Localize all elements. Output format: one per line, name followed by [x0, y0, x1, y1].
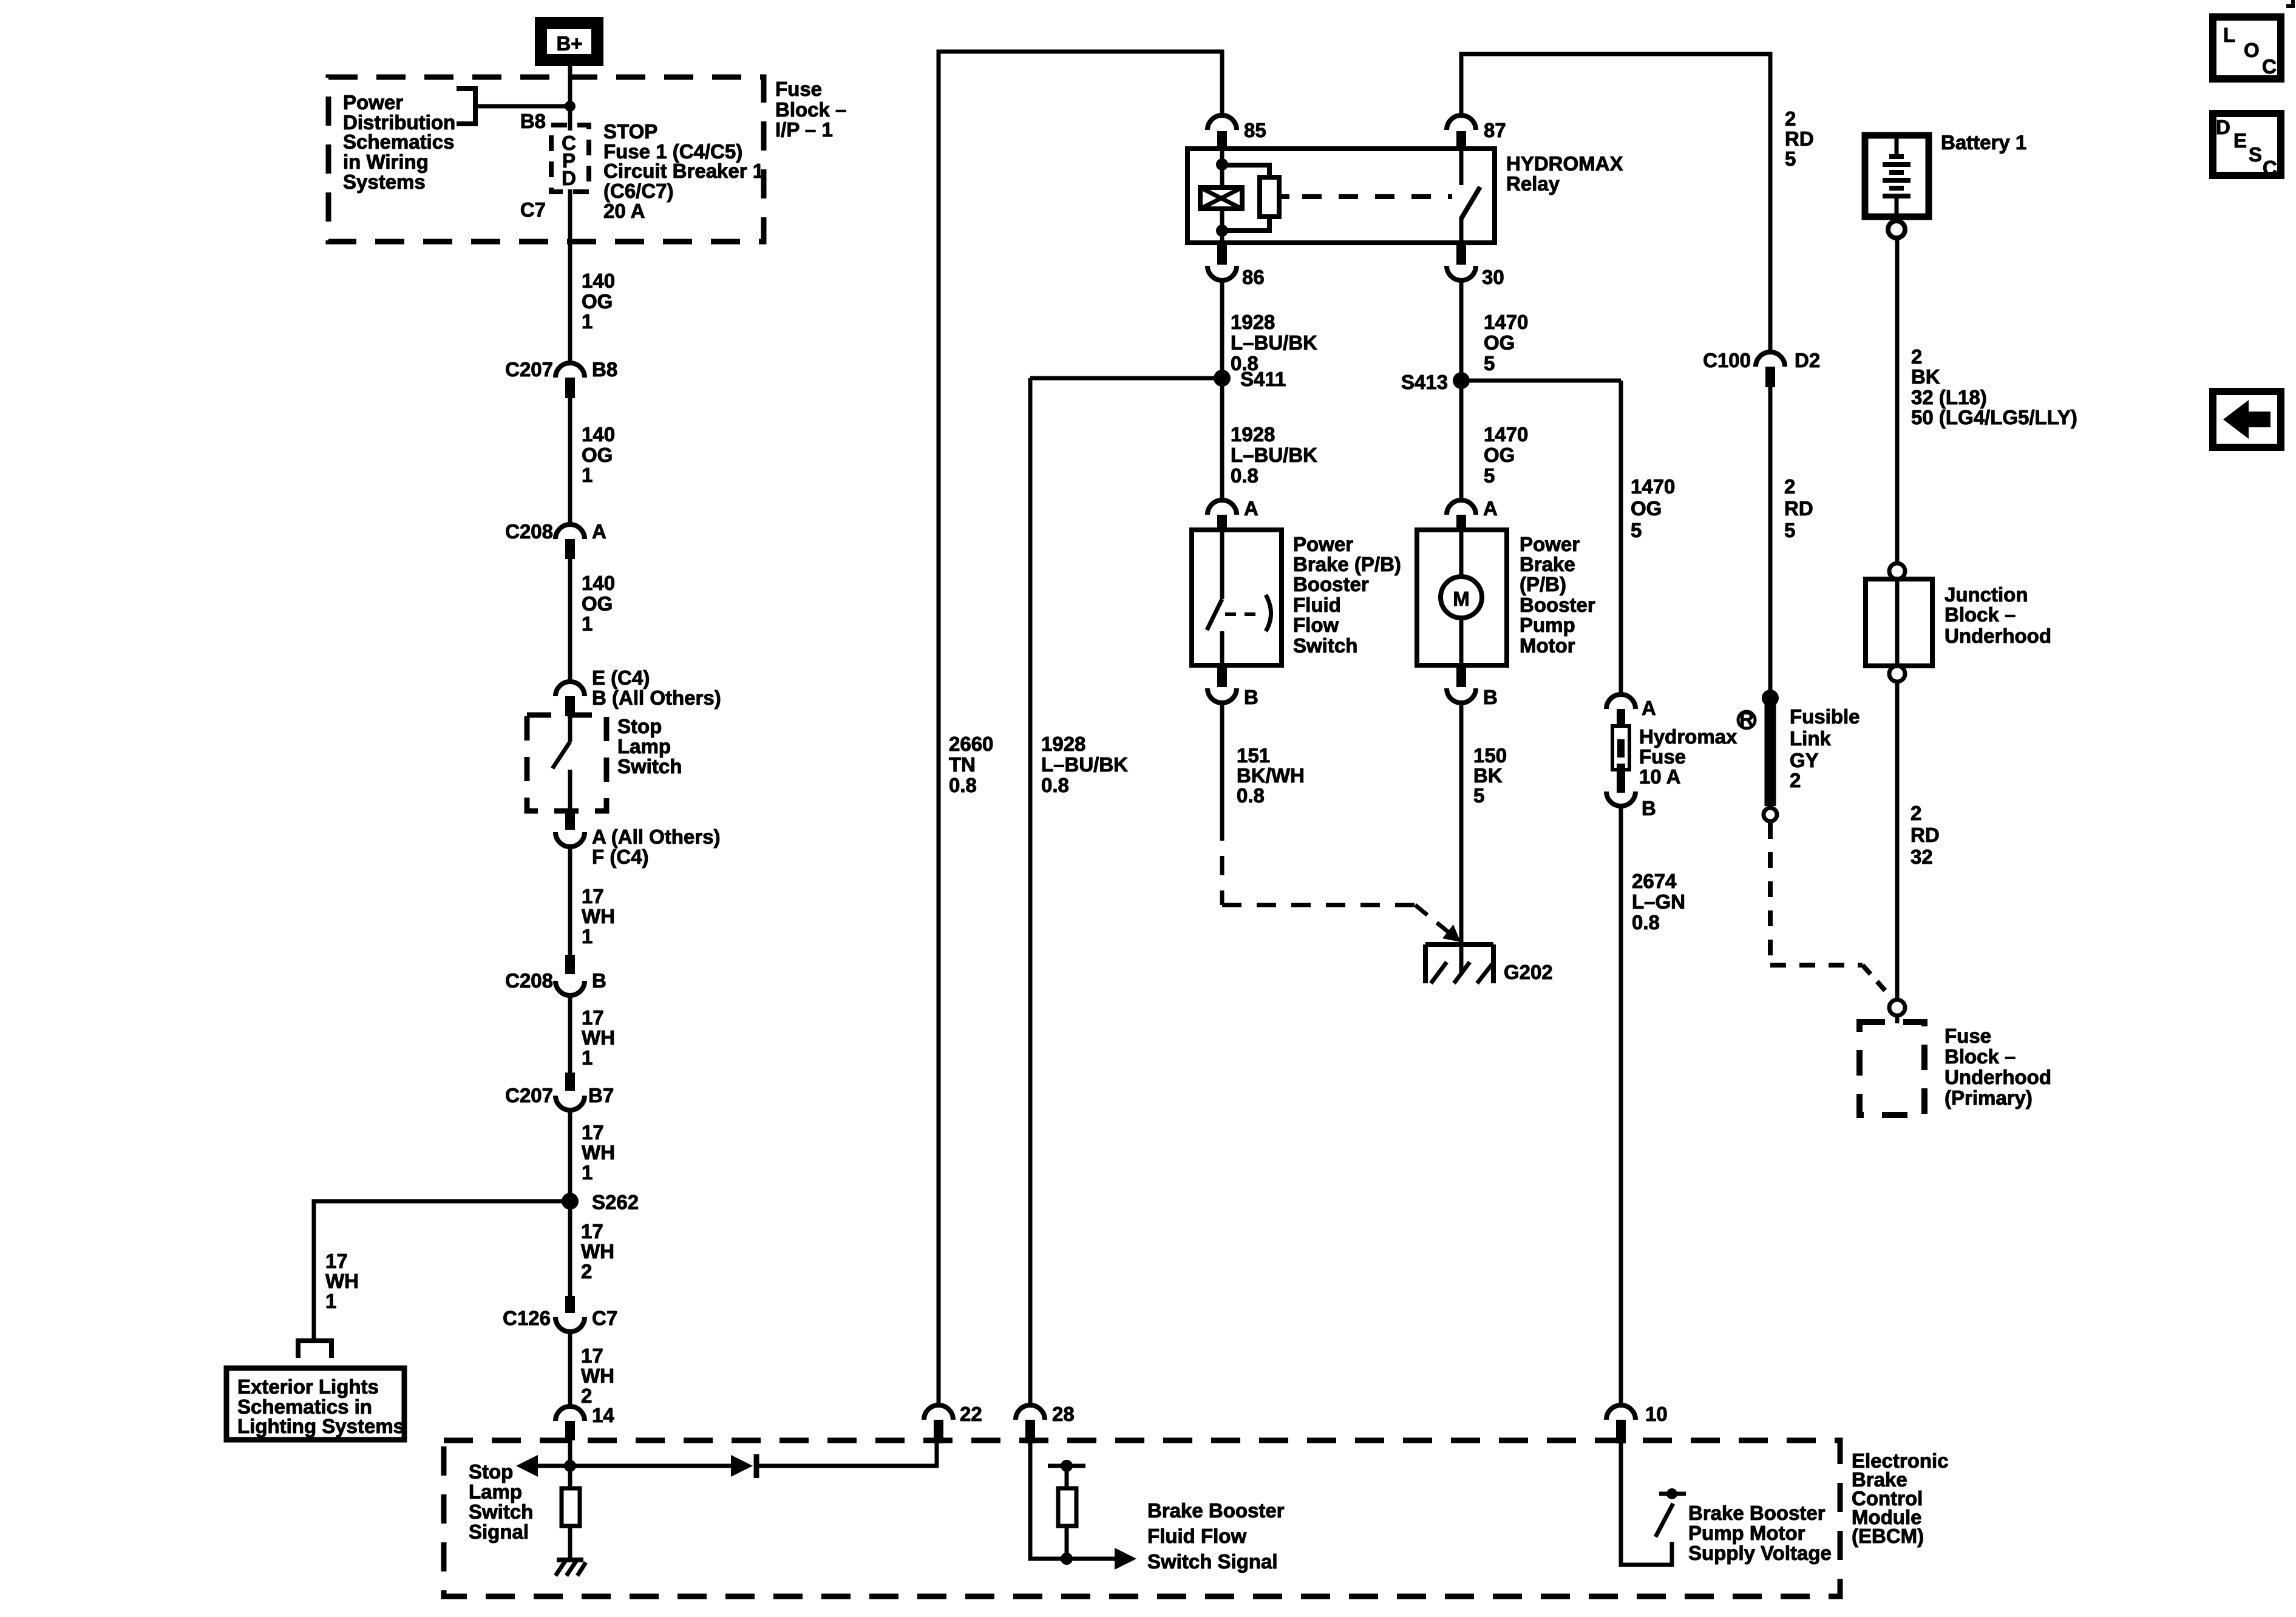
relay pin 85 [1207, 115, 1266, 150]
Power Brake Booster Pump Motor label [1520, 533, 1595, 657]
wire 2 RD 32 [1895, 682, 1900, 1000]
svg-text:Switch Signal: Switch Signal [1147, 1550, 1278, 1573]
relay U1 HYDROMAX box [1187, 149, 1495, 243]
svg-text:F (C4): F (C4) [592, 846, 649, 868]
back arrow box [2213, 392, 2281, 447]
svg-text:Systems: Systems [343, 171, 426, 193]
internal switch blade [1656, 1488, 1686, 1537]
svg-text:10 A: 10 A [1639, 765, 1680, 788]
wire 150 BK to ground [1459, 703, 1464, 944]
wire bar to pin 22 [756, 1442, 937, 1466]
fluid flow switch signal circuit inside EBCM [1030, 1443, 1116, 1559]
svg-text:B: B [1244, 686, 1258, 708]
svg-text:A: A [1642, 697, 1656, 719]
svg-text:140: 140 [582, 269, 615, 292]
svg-text:OG: OG [582, 444, 613, 466]
svg-text:Relay: Relay [1506, 172, 1560, 195]
relay armature dashed link [1279, 194, 1289, 199]
svg-text:C208: C208 [505, 520, 553, 543]
svg-text:L–BU/BK: L–BU/BK [1231, 444, 1317, 466]
svg-text:1470: 1470 [1484, 311, 1528, 333]
STOP fuse / circuit breaker label [603, 120, 764, 222]
wire pin14 to stop lamp signal node [568, 1440, 572, 1472]
label 1470 OG 5 [1484, 423, 1528, 487]
svg-text:1: 1 [582, 1046, 593, 1069]
svg-text:B8: B8 [592, 358, 617, 381]
svg-text:2: 2 [1911, 345, 1922, 368]
svg-text:Power: Power [1520, 533, 1580, 555]
svg-text:1: 1 [325, 1290, 336, 1312]
wire S413 right to fuse drop [1461, 379, 1621, 383]
HYDROMAX Relay label [1506, 152, 1623, 195]
junction dot [1061, 1553, 1073, 1565]
fusible link GY [1762, 690, 1779, 821]
svg-text:32 (L18): 32 (L18) [1911, 386, 1987, 408]
svg-text:Circuit Breaker 1: Circuit Breaker 1 [603, 160, 764, 182]
label 17 WH 1 branch [325, 1250, 359, 1312]
svg-text:S411: S411 [1240, 368, 1286, 390]
svg-text:Fuse: Fuse [1639, 745, 1686, 768]
svg-text:Brake Booster: Brake Booster [1147, 1499, 1285, 1522]
svg-text:E: E [2233, 129, 2247, 152]
svg-text:WH: WH [581, 1240, 614, 1263]
svg-text:O: O [2244, 39, 2260, 61]
svg-text:87: 87 [1484, 119, 1506, 141]
wire 17 WH 1 [568, 847, 572, 955]
svg-text:A (All Others): A (All Others) [592, 825, 720, 848]
label 2 RD 5 [1784, 475, 1813, 541]
svg-text:Lighting Systems: Lighting Systems [237, 1415, 404, 1437]
svg-text:30: 30 [1482, 266, 1504, 288]
svg-text:Supply Voltage: Supply Voltage [1688, 1542, 1832, 1564]
Fuse Block - Underhood (Primary) label [1944, 1025, 2051, 1109]
svg-text:RD: RD [1784, 497, 1813, 520]
svg-text:17: 17 [581, 1344, 603, 1367]
svg-text:B8: B8 [520, 110, 546, 132]
left arrow to Stop Lamp Switch Signal [516, 1455, 732, 1477]
fuse block I/P dashed box [328, 77, 764, 242]
svg-text:2: 2 [1785, 107, 1796, 130]
svg-text:Brake (P/B): Brake (P/B) [1293, 553, 1401, 575]
svg-text:Pump Motor: Pump Motor [1688, 1522, 1805, 1544]
svg-text:B7: B7 [588, 1084, 614, 1107]
svg-text:32: 32 [1911, 846, 1933, 868]
battery plates [1883, 138, 1911, 217]
svg-text:WH: WH [325, 1270, 359, 1292]
splice S411 [1214, 368, 1286, 390]
node: Power Distribution Schematics label [343, 91, 455, 193]
svg-text:Switch: Switch [617, 755, 682, 778]
svg-text:OG: OG [1484, 331, 1515, 354]
EBCM pin 10 [1606, 1403, 1668, 1443]
svg-text:2674: 2674 [1632, 870, 1677, 892]
relay coil [1200, 149, 1242, 243]
wire 86 to S411 to switch A [1220, 280, 1224, 500]
label 140 OG 1 [582, 572, 615, 635]
svg-text:BK: BK [1911, 365, 1940, 388]
svg-text:0.8: 0.8 [1231, 464, 1258, 487]
wire 140 OG below breaker [568, 189, 572, 363]
svg-text:1928: 1928 [1041, 733, 1085, 755]
relay pin 87 [1447, 115, 1506, 150]
svg-text:Block –: Block – [1944, 603, 2016, 626]
label 140 OG 1 [582, 423, 615, 486]
circuit breaker CPD dashed box [551, 125, 589, 192]
svg-text:Booster: Booster [1293, 573, 1369, 595]
wire 2 RD 5 down to fusible link [1768, 387, 1773, 698]
wire 140 OG [568, 398, 572, 524]
connector C126 pin C7 [503, 1296, 617, 1332]
svg-text:D: D [2216, 116, 2230, 138]
wire 17 WH 1 to S262 [568, 1110, 572, 1296]
svg-text:B+: B+ [556, 32, 582, 55]
svg-text:in Wiring: in Wiring [343, 151, 429, 173]
svg-text:B: B [1483, 686, 1498, 708]
svg-text:OG: OG [582, 592, 613, 615]
svg-text:B: B [592, 969, 606, 992]
svg-text:BK: BK [1473, 764, 1503, 787]
wire S413 branch down to fuse [1619, 381, 1623, 694]
Junction Block - Underhood label [1944, 583, 2051, 647]
wire B+ down into fuse block [568, 66, 572, 131]
svg-text:5: 5 [1631, 519, 1642, 541]
fuse block underhood dashed box [1860, 1022, 1924, 1115]
svg-text:C: C [2263, 157, 2277, 179]
label 1928 L-BU/BK 0.8 [1231, 311, 1317, 375]
label 1928 L-BU/BK 0.8 [1041, 733, 1128, 796]
svg-text:20 A: 20 A [603, 200, 645, 222]
svg-text:C207: C207 [505, 358, 553, 381]
svg-text:Signal: Signal [469, 1520, 529, 1543]
label 1470 OG 5 [1484, 311, 1528, 375]
svg-text:17: 17 [325, 1250, 348, 1272]
long wire 1928 L-BU/BK to pin 28 [1028, 378, 1033, 1405]
wire pin 87 up and right to C100 [1461, 54, 1770, 352]
EBCM pin 28 [1016, 1403, 1075, 1443]
off-page bracket to power distribution [457, 89, 475, 124]
wire 30 to S413 to motor A [1459, 280, 1464, 500]
svg-text:85: 85 [1244, 119, 1266, 141]
svg-text:Fusible: Fusible [1790, 705, 1860, 728]
EBCM pin 14 [555, 1404, 614, 1440]
svg-text:L–GN: L–GN [1632, 890, 1685, 913]
svg-text:(C6/C7): (C6/C7) [603, 180, 674, 202]
wire 17 WH 2 [568, 1332, 572, 1406]
svg-text:1928: 1928 [1231, 423, 1275, 446]
svg-text:Power: Power [343, 91, 403, 114]
svg-text:WH: WH [582, 1026, 615, 1049]
label 2660 TN 0.8 [949, 733, 993, 796]
dashed run from fusible link to fuse block underhood [1770, 823, 1892, 998]
right arrow into terminal bar [731, 1454, 756, 1478]
svg-text:Flow: Flow [1293, 614, 1339, 636]
connector C100 pin D2 [1703, 349, 1820, 387]
svg-text:Motor: Motor [1520, 634, 1575, 657]
P/B booster pump motor box [1417, 530, 1507, 665]
svg-text:Power: Power [1293, 533, 1353, 555]
fuse body [1606, 709, 1656, 819]
arrow fluid flow switch signal [1115, 1548, 1136, 1570]
Power Brake Booster Fluid Flow Switch label [1293, 533, 1401, 657]
svg-text:17: 17 [582, 1121, 604, 1144]
svg-text:(EBCM): (EBCM) [1852, 1525, 1924, 1547]
svg-text:HYDROMAX: HYDROMAX [1506, 152, 1623, 175]
svg-text:5: 5 [1484, 352, 1495, 375]
svg-text:2: 2 [1784, 475, 1795, 498]
svg-text:Brake: Brake [1520, 553, 1575, 575]
wire bracket to B+ node [475, 104, 570, 109]
relay pin 30 [1447, 245, 1504, 288]
svg-text:2: 2 [581, 1385, 592, 1407]
stop lamp switch contacts [552, 716, 570, 812]
svg-text:Lamp: Lamp [617, 735, 671, 758]
svg-text:(Primary): (Primary) [1944, 1086, 2033, 1109]
Fusible Link GY 2 label [1790, 705, 1860, 792]
svg-text:C7: C7 [592, 1307, 617, 1329]
svg-text:C126: C126 [503, 1307, 551, 1329]
svg-text:14: 14 [592, 1404, 614, 1426]
svg-text:WH: WH [582, 1141, 615, 1164]
Stop Lamp Switch label [617, 715, 682, 778]
svg-text:140: 140 [582, 423, 615, 446]
svg-text:C7: C7 [520, 198, 546, 221]
svg-text:151: 151 [1237, 744, 1270, 767]
svg-text:Link: Link [1790, 727, 1831, 750]
svg-text:1: 1 [582, 612, 593, 635]
Brake Booster Pump Motor Supply Voltage label [1688, 1502, 1832, 1564]
svg-text:Block –: Block – [775, 98, 846, 121]
svg-text:A: A [592, 520, 606, 543]
Stop Lamp Switch Signal label [469, 1460, 533, 1543]
motor M1 symbol [1441, 530, 1482, 665]
svg-text:TN: TN [949, 753, 976, 776]
Hydromax fuse F1 pin A [1606, 694, 1656, 719]
svg-text:86: 86 [1242, 266, 1265, 288]
svg-text:1: 1 [582, 464, 593, 486]
svg-text:Hydromax: Hydromax [1639, 725, 1737, 748]
label 1470 OG 5 [1631, 475, 1675, 541]
label 150 BK 5 [1473, 744, 1507, 807]
svg-text:Brake Booster: Brake Booster [1688, 1502, 1826, 1524]
svg-text:5: 5 [1484, 464, 1495, 487]
label 2 RD 5 top [1785, 107, 1814, 170]
svg-text:GY: GY [1790, 749, 1819, 771]
resistor fluid flow pullup [1058, 1466, 1076, 1559]
dashed ground run from flow switch [1222, 821, 1461, 942]
svg-text:Underhood: Underhood [1944, 625, 2051, 647]
svg-text:Underhood: Underhood [1944, 1066, 2051, 1088]
wire 151 BK/WH [1220, 703, 1224, 821]
svg-text:C208: C208 [505, 969, 553, 992]
label 2 BK 32/50 [1911, 345, 2077, 429]
resistor stop lamp pulldown [562, 1472, 580, 1560]
connector pin E(C4)/B(All Others) at stop lamp switch [555, 666, 721, 716]
svg-text:150: 150 [1473, 744, 1507, 767]
svg-text:RD: RD [1785, 127, 1814, 150]
splice S413 [1401, 371, 1470, 393]
connector C207 pin B8 [505, 358, 617, 398]
svg-text:1: 1 [582, 310, 593, 333]
svg-text:STOP: STOP [603, 120, 657, 143]
svg-text:Block –: Block – [1944, 1045, 2016, 1068]
relay pin 86 [1207, 245, 1265, 288]
svg-text:5: 5 [1473, 784, 1484, 807]
svg-text:50 (LG4/LG5/LLY): 50 (LG4/LG5/LLY) [1911, 406, 2077, 429]
svg-text:2: 2 [1790, 769, 1801, 792]
svg-text:Stop: Stop [617, 715, 662, 737]
connector C207 pin B7 [505, 1073, 614, 1110]
svg-text:M: M [1453, 588, 1470, 610]
svg-text:Lamp: Lamp [469, 1480, 522, 1503]
svg-text:WH: WH [581, 1364, 614, 1387]
wire 2 BK down to junction block [1895, 238, 1900, 563]
ground G202 [1425, 944, 1553, 983]
label 1928 L-BU/BK 0.8 [1231, 423, 1317, 487]
LOC box [2213, 17, 2281, 79]
svg-text:Booster: Booster [1520, 594, 1595, 616]
node junction on B+ feed [565, 101, 576, 112]
svg-text:1: 1 [582, 925, 593, 947]
motor pin A [1447, 497, 1498, 531]
svg-text:Stop: Stop [469, 1460, 513, 1483]
svg-text:A: A [1483, 497, 1498, 520]
svg-text:OG: OG [1484, 444, 1515, 466]
svg-text:Switch: Switch [469, 1500, 533, 1523]
svg-text:Pump: Pump [1520, 614, 1575, 636]
svg-text:WH: WH [582, 905, 615, 927]
branch wire to exterior lights [314, 1201, 570, 1340]
svg-text:OG: OG [1631, 497, 1662, 520]
svg-text:S413: S413 [1401, 371, 1448, 393]
svg-text:1928: 1928 [1231, 311, 1275, 333]
svg-text:A: A [1244, 497, 1258, 520]
svg-text:2660: 2660 [949, 733, 993, 755]
P/B booster fluid flow switch box [1192, 530, 1282, 665]
Exterior Lights Schematics box [226, 1368, 404, 1440]
long wire 2660 TN to pin 22 [939, 52, 1222, 1405]
svg-text:D2: D2 [1795, 349, 1820, 371]
svg-text:Schematics: Schematics [343, 131, 454, 153]
battery feed B+ box [541, 23, 597, 60]
label 140 OG 1 [582, 269, 615, 333]
svg-text:Exterior Lights: Exterior Lights [237, 1375, 379, 1398]
Brake Booster Fluid Flow Switch Signal label [1147, 1499, 1285, 1573]
page corner mark [2286, 0, 2293, 6]
svg-text:5: 5 [1785, 147, 1796, 170]
node: Fuse Block - I/P - 1 label [775, 78, 846, 141]
Electronic Brake Control Module label [1852, 1449, 1949, 1547]
svg-text:28: 28 [1052, 1403, 1075, 1425]
svg-text:0.8: 0.8 [1237, 784, 1265, 807]
svg-text:C207: C207 [505, 1084, 553, 1107]
label 2 RD 32 [1911, 802, 1940, 868]
wire into fuse block [1895, 1015, 1900, 1023]
splice S262 [562, 1191, 639, 1213]
off-page stub to exterior lights [298, 1341, 331, 1358]
svg-text:L–BU/BK: L–BU/BK [1041, 753, 1128, 776]
svg-text:BK/WH: BK/WH [1237, 764, 1305, 787]
svg-text:17: 17 [582, 885, 604, 907]
svg-text:C: C [2262, 55, 2277, 78]
Hydromax Fuse 10 A label [1639, 708, 1755, 788]
relay switch contact [1461, 149, 1480, 243]
svg-text:OG: OG [582, 290, 613, 313]
svg-text:B: B [1642, 797, 1656, 819]
wire 17 WH 2 below S262 [581, 1220, 614, 1283]
flow switch pin A [1207, 497, 1258, 531]
flow switch contacts [1207, 530, 1271, 665]
svg-text:5: 5 [1784, 519, 1795, 541]
svg-text:17: 17 [582, 1006, 604, 1029]
wire 2674 L-GN down to pin 10 [1619, 806, 1623, 1405]
svg-text:10: 10 [1645, 1403, 1668, 1425]
terminal ring at fuse block [1889, 1000, 1905, 1015]
svg-text:1470: 1470 [1484, 423, 1528, 446]
battery BT1 box [1865, 135, 1929, 217]
svg-text:2: 2 [581, 1260, 592, 1283]
svg-text:1470: 1470 [1631, 475, 1675, 498]
svg-text:Battery 1: Battery 1 [1941, 131, 2026, 154]
svg-text:I/P – 1: I/P – 1 [775, 118, 833, 141]
svg-text:1: 1 [582, 1161, 593, 1184]
svg-text:E (C4): E (C4) [592, 666, 650, 689]
wire 17 WH 1 [568, 995, 572, 1073]
EBCM dashed box [444, 1440, 1840, 1596]
svg-text:B (All Others): B (All Others) [592, 686, 721, 709]
svg-text:140: 140 [582, 572, 615, 594]
svg-text:Fluid: Fluid [1293, 594, 1341, 616]
label 2674 L-GN 0.8 [1632, 870, 1685, 934]
svg-text:Switch: Switch [1293, 634, 1357, 657]
svg-text:0.8: 0.8 [949, 774, 977, 796]
svg-text:C100: C100 [1703, 349, 1751, 371]
internal rail bar [1048, 1464, 1085, 1468]
connector C208 pin A [505, 520, 606, 559]
EBCM pin 22 [924, 1403, 982, 1443]
svg-text:S262: S262 [592, 1191, 639, 1213]
DESC box [2213, 114, 2281, 179]
relay coil parallel resistor [1222, 165, 1279, 231]
label 151 BK/WH 0.8 [1237, 744, 1305, 807]
svg-text:Fuse: Fuse [775, 78, 822, 100]
ground chassis inside EBCM [555, 1560, 586, 1576]
stop lamp switch dashed box [527, 715, 606, 811]
svg-text:L–BU/BK: L–BU/BK [1231, 331, 1317, 354]
svg-text:(P/B): (P/B) [1520, 573, 1566, 595]
svg-text:0.8: 0.8 [1041, 774, 1069, 796]
svg-text:RD: RD [1911, 824, 1940, 846]
svg-text:0.8: 0.8 [1632, 911, 1660, 934]
connector pin A(All Others)/F(C4) [555, 812, 720, 868]
svg-text:17: 17 [581, 1220, 603, 1242]
svg-text:L: L [2223, 24, 2235, 46]
wire S411 to pin28 drop [1030, 376, 1222, 381]
connector C208 pin B [505, 955, 606, 995]
svg-text:22: 22 [960, 1403, 982, 1425]
junction block [1866, 563, 1932, 682]
svg-text:D: D [562, 167, 576, 189]
battery terminal ring [1888, 221, 1905, 238]
svg-text:G202: G202 [1504, 961, 1553, 983]
svg-text:R: R [1739, 708, 1754, 730]
svg-text:S: S [2249, 143, 2262, 166]
svg-text:Fluid Flow: Fluid Flow [1147, 1525, 1246, 1547]
svg-text:2: 2 [1911, 802, 1921, 824]
motor pin B [1447, 665, 1498, 708]
pump motor supply circuit inside EBCM [1621, 1443, 1672, 1565]
svg-text:Junction: Junction [1944, 583, 2028, 606]
node stop lamp signal junction [564, 1460, 576, 1472]
